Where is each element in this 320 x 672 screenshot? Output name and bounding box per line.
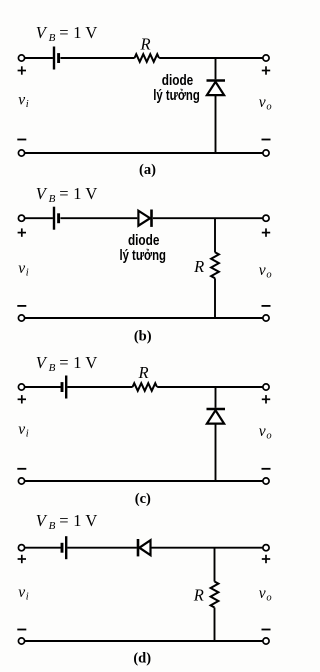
terminal: input - (a) [18,150,24,156]
wire (d): resistor to bottom rail [214,608,216,642]
svg-text:(c): (c) [135,491,151,507]
terminal: input + (c) [18,384,24,390]
terminal: input + (b) [18,215,24,221]
polarity - output (b) [262,305,271,307]
svg-text:vi: vi [18,260,29,279]
battery VB (a) 1 V, long plate left [54,47,59,70]
terminal: output - (c) [263,478,269,484]
polarity + output (d) [262,555,270,563]
svg-text:(b): (b) [134,328,152,344]
terminal: input + (a) [18,55,24,61]
wire (a): bottom rail [25,152,263,154]
wire (d): diode anode to output+ [151,547,263,549]
wire (b): battery to diode anode [60,217,137,219]
wire (c): battery to resistor R [67,386,132,388]
svg-text:vi: vi [18,92,29,111]
svg-text:R: R [193,257,204,276]
polarity + input (a) [18,66,26,74]
diode D (c) ideal, shunt (cathode bar up, triangle apex touching bar) [207,409,226,424]
resistor R (a) zigzag [135,54,160,62]
terminal: input + (d) [18,545,24,551]
diode D (d) ideal, series reversed (triangle pointing left, cathode bar left) [138,539,151,556]
wire (d): top node down to resistor R [214,548,216,582]
polarity - input (c) [17,468,26,470]
polarity + input (c) [18,395,26,403]
svg-text:VB=1 V: VB=1 V [36,353,98,374]
wire (b): top node down to resistor R [214,218,216,252]
svg-text:R: R [138,363,149,382]
polarity - output (a) [262,139,271,141]
terminal: output - (b) [263,315,269,321]
polarity - output (d) [262,629,271,631]
wire (a): resistor to output+ [159,57,263,59]
svg-text:(a): (a) [139,162,156,178]
polarity - input (d) [17,629,26,631]
wire (d): bottom rail [25,640,263,642]
svg-text:R: R [140,35,151,54]
wire (c): top node down to diode cathode [215,387,217,408]
polarity + input (d) [18,555,26,563]
svg-text:vi: vi [18,584,29,603]
terminal: output - (a) [263,150,269,156]
polarity - input (b) [17,305,26,307]
svg-text:vo: vo [259,585,272,604]
resistor R (b) zigzag shunt [211,252,219,278]
diode D (a) ideal, shunt (cathode bar up, triangle apex touching bar) [207,81,226,96]
wire (c): bottom rail [25,480,263,482]
wire (a): input+ to battery [25,57,53,59]
battery VB (c) 1 V, long plate right [62,376,66,399]
svg-text:VB=1 V: VB=1 V [36,23,98,44]
battery VB (d) 1 V, long plate right [62,536,66,559]
wire (c): resistor to output+ [157,386,263,388]
battery VB (b) 1 V, long plate left [54,207,59,230]
terminal: input - (c) [18,478,24,484]
polarity + input (b) [18,228,26,236]
terminal: output + (a) [263,55,269,61]
polarity + output (c) [262,395,270,403]
resistor R (d) zigzag shunt [211,582,219,608]
wire (b): diode cathode to output+ [153,217,263,219]
svg-text:VB=1 V: VB=1 V [36,184,98,205]
polarity - input (a) [17,139,26,141]
polarity - output (c) [262,468,271,470]
terminal: input - (d) [18,638,24,644]
resistor R (c) zigzag [133,383,158,391]
svg-text:diodelý tưởng: diodelý tưởng [153,73,200,104]
wire (a): top node down to diode cathode [215,58,217,79]
svg-text:vo: vo [259,423,272,442]
wire (c): input+ to battery [25,386,62,388]
terminal: output + (b) [263,215,269,221]
wire (d): battery to diode cathode [67,547,136,549]
wire (a): battery to resistor R [60,57,134,59]
svg-text:(d): (d) [133,651,151,667]
wire (a): diode anode down to bottom rail [215,95,217,153]
terminal: output - (d) [263,638,269,644]
diode D (b) ideal, series (triangle pointing right, cathode bar right) [138,210,151,227]
polarity + output (a) [262,66,270,74]
polarity + output (b) [262,228,270,236]
terminal: output + (c) [263,384,269,390]
svg-text:VB=1 V: VB=1 V [36,511,98,532]
wire (b): input+ to battery [25,217,53,219]
svg-text:vo: vo [259,94,272,113]
wire (b): resistor to bottom rail [214,278,216,318]
wire (b): bottom rail [25,317,263,319]
svg-text:R: R [193,586,204,605]
wire (c): diode anode down to bottom rail [215,424,217,481]
svg-text:vo: vo [259,262,272,281]
svg-text:diodelý tưởng: diodelý tưởng [119,233,166,264]
terminal: output + (d) [263,545,269,551]
terminal: input - (b) [18,315,24,321]
wire (d): input+ to battery [25,547,62,549]
svg-text:vi: vi [18,421,29,440]
